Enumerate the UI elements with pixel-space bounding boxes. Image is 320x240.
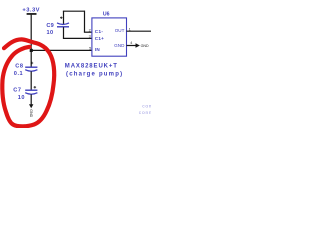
svg-text:5: 5 bbox=[89, 46, 91, 50]
op chip U6 box bbox=[92, 18, 127, 56]
wire +3.3V rail vertical bbox=[30, 15, 32, 67]
svg-text:C1+: C1+ bbox=[95, 36, 104, 41]
svg-text:C9: C9 bbox=[46, 23, 54, 29]
power +3.3V bar symbol bbox=[27, 13, 37, 15]
wire IN net horizontal bbox=[31, 49, 91, 51]
annotation red circle bbox=[2, 39, 54, 126]
svg-text:2: 2 bbox=[89, 28, 91, 32]
svg-text:conn: conn bbox=[139, 111, 151, 116]
svg-text:U6: U6 bbox=[103, 12, 110, 18]
svg-text:10: 10 bbox=[18, 95, 25, 101]
wire C9 bottom lead down bbox=[63, 27, 65, 38]
ground arrow down bbox=[29, 104, 33, 108]
wire drop to C1- pin bbox=[84, 11, 86, 33]
svg-text:+3.3V: +3.3V bbox=[22, 8, 40, 14]
svg-text:(charge pump): (charge pump) bbox=[66, 71, 123, 77]
svg-text:OUT: OUT bbox=[115, 28, 125, 33]
svg-text:com: com bbox=[142, 104, 151, 109]
svg-text:MAX828EUK+T: MAX828EUK+T bbox=[65, 64, 118, 70]
node junction dot at rail/IN wire bbox=[30, 49, 33, 52]
capacitor C8 plus polarity mark bbox=[31, 62, 34, 65]
svg-text:GND: GND bbox=[29, 109, 33, 117]
wire C9 bottom to C1+ pin bbox=[63, 37, 92, 39]
svg-text:GND: GND bbox=[141, 44, 149, 48]
capacitor C9 polarized symbol bbox=[57, 23, 69, 27]
svg-text:10: 10 bbox=[47, 30, 54, 36]
wire C9 top horizontal bbox=[63, 10, 85, 12]
ground arrow right bbox=[136, 43, 140, 47]
svg-text:IN: IN bbox=[95, 47, 101, 52]
wire OUT net bbox=[127, 30, 152, 32]
capacitor C7 plus polarity mark bbox=[34, 86, 37, 89]
svg-text:0.1: 0.1 bbox=[14, 71, 23, 77]
wire C7 bottom lead bbox=[30, 94, 32, 105]
wire GND stub bbox=[127, 45, 137, 47]
capacitor C9 plus polarity mark bbox=[60, 16, 63, 19]
capacitor C8 polarized symbol bbox=[25, 67, 37, 71]
svg-text:C8: C8 bbox=[15, 63, 24, 69]
svg-text:3: 3 bbox=[89, 35, 91, 39]
svg-text:GND: GND bbox=[114, 43, 125, 48]
svg-text:C7: C7 bbox=[13, 87, 22, 93]
capacitor C7 polarized symbol bbox=[25, 90, 37, 94]
wire C8-C7 lead bbox=[30, 71, 32, 89]
svg-text:4: 4 bbox=[130, 41, 132, 45]
wire stub to C1- bbox=[84, 31, 92, 33]
svg-text:C1-: C1- bbox=[95, 29, 104, 34]
wire C9 top lead bbox=[63, 11, 65, 25]
